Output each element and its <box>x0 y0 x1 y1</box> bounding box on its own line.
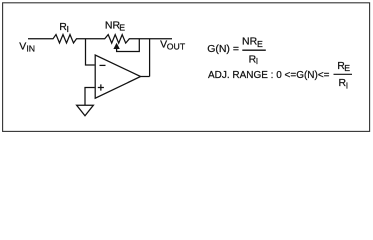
svg-text:V: V <box>19 40 26 52</box>
svg-text:ADJ. RANGE : 0 <=G(N)<=: ADJ. RANGE : 0 <=G(N)<= <box>208 69 330 81</box>
svg-text:NR: NR <box>105 20 121 32</box>
svg-text:IN: IN <box>26 44 35 54</box>
svg-text:G(N) =: G(N) = <box>207 43 239 55</box>
svg-text:I: I <box>67 24 69 34</box>
svg-text:I: I <box>256 56 258 66</box>
svg-text:OUT: OUT <box>167 42 186 52</box>
svg-text:E: E <box>344 63 350 73</box>
svg-text:E: E <box>257 39 263 49</box>
svg-text:I: I <box>346 80 348 90</box>
svg-text:E: E <box>119 23 125 33</box>
svg-text:NR: NR <box>242 36 258 48</box>
